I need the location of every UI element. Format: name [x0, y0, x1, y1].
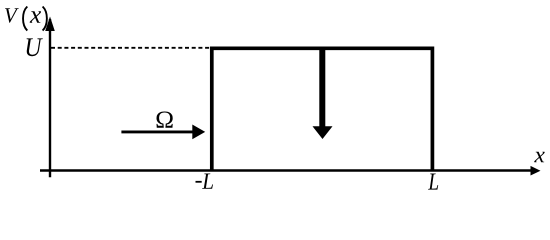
thick down arrow shaft	[319, 48, 325, 128]
potential barrier outline	[212, 48, 433, 170]
x-axis arrowhead	[531, 166, 541, 176]
thick down arrow head	[313, 126, 333, 139]
label V	[5, 8, 19, 23]
label x at axis end	[534, 152, 545, 162]
right parenthesis of V(x)	[43, 7, 47, 31]
x-axis	[40, 169, 532, 171]
label x of V(x)	[30, 11, 41, 22]
label L at right	[428, 173, 438, 189]
dashed level line at U	[51, 47, 210, 49]
label U	[27, 38, 43, 56]
label L of -L	[202, 173, 213, 188]
y-axis (V axis)	[49, 19, 51, 177]
left parenthesis of V(x)	[23, 7, 27, 31]
minus sign of -L	[196, 181, 202, 183]
label Omega	[157, 112, 173, 128]
omega arrow shaft	[121, 130, 194, 133]
omega arrow head	[192, 125, 205, 140]
y-axis arrowhead	[45, 17, 55, 32]
